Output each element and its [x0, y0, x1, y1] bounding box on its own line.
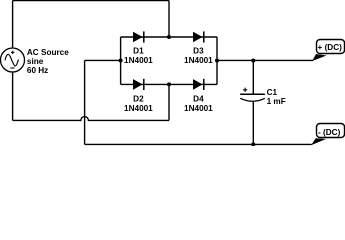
svg-text:1N4001: 1N4001	[124, 56, 153, 65]
output flag + (DC)	[312, 40, 344, 62]
wire bridge right vertical	[216, 37, 218, 84]
diode D1	[124, 31, 153, 65]
svg-text:D4: D4	[193, 94, 204, 103]
wire bottom rail (D2/D4 row)	[121, 83, 217, 85]
wire AC- riser to bottom rail mid junction	[168, 84, 170, 120]
wire capacitor top lead	[252, 60, 254, 94]
junction dot bridge left mid	[119, 58, 123, 62]
svg-text:60 Hz: 60 Hz	[27, 66, 48, 75]
svg-text:1N4001: 1N4001	[184, 56, 213, 65]
AC source V1	[1, 48, 25, 72]
svg-text:1N4001: 1N4001	[184, 104, 213, 113]
svg-text:D1: D1	[133, 46, 144, 55]
wire bottom DC- horizontal	[85, 143, 312, 145]
wire DC- left vertical drop	[84, 60, 86, 144]
wire AC- horizontal with hop over DC- vertical	[13, 117, 169, 121]
wire top horizontal (AC+ to bridge top mid)	[13, 0, 169, 2]
svg-text:sine: sine	[27, 57, 44, 66]
capacitor C1	[240, 88, 286, 106]
svg-text:+ (DC): + (DC)	[318, 43, 343, 52]
junction dot bottom rail mid	[167, 82, 171, 86]
junction dot bridge right mid	[215, 58, 219, 62]
wire DC+ output horizontal	[217, 59, 313, 61]
svg-text:1 mF: 1 mF	[267, 97, 286, 106]
wire mid-left (DC- node to bridge left)	[85, 59, 121, 61]
junction dot capacitor bottom	[251, 142, 255, 146]
AC source label	[27, 48, 69, 75]
diode D4	[184, 79, 213, 113]
svg-text:D2: D2	[133, 94, 144, 103]
svg-text:AC Source: AC Source	[27, 48, 69, 57]
diode D2	[124, 79, 153, 113]
diode D3	[184, 31, 213, 65]
wire drop to top rail mid junction	[168, 1, 170, 38]
output flag - (DC)	[311, 124, 345, 146]
svg-text:1N4001: 1N4001	[124, 104, 153, 113]
wire AC- source bottom lead	[12, 72, 14, 120]
wire AC+ top lead	[12, 1, 14, 49]
svg-text:- (DC): - (DC)	[318, 128, 341, 137]
wire top rail (D1/D3 row)	[121, 36, 217, 38]
wire capacitor bottom lead	[252, 101, 254, 144]
junction dot top rail mid	[167, 35, 171, 39]
svg-text:C1: C1	[267, 88, 278, 97]
junction dot capacitor top	[251, 58, 255, 62]
svg-text:D3: D3	[193, 46, 204, 55]
wire bridge left vertical	[120, 37, 122, 84]
